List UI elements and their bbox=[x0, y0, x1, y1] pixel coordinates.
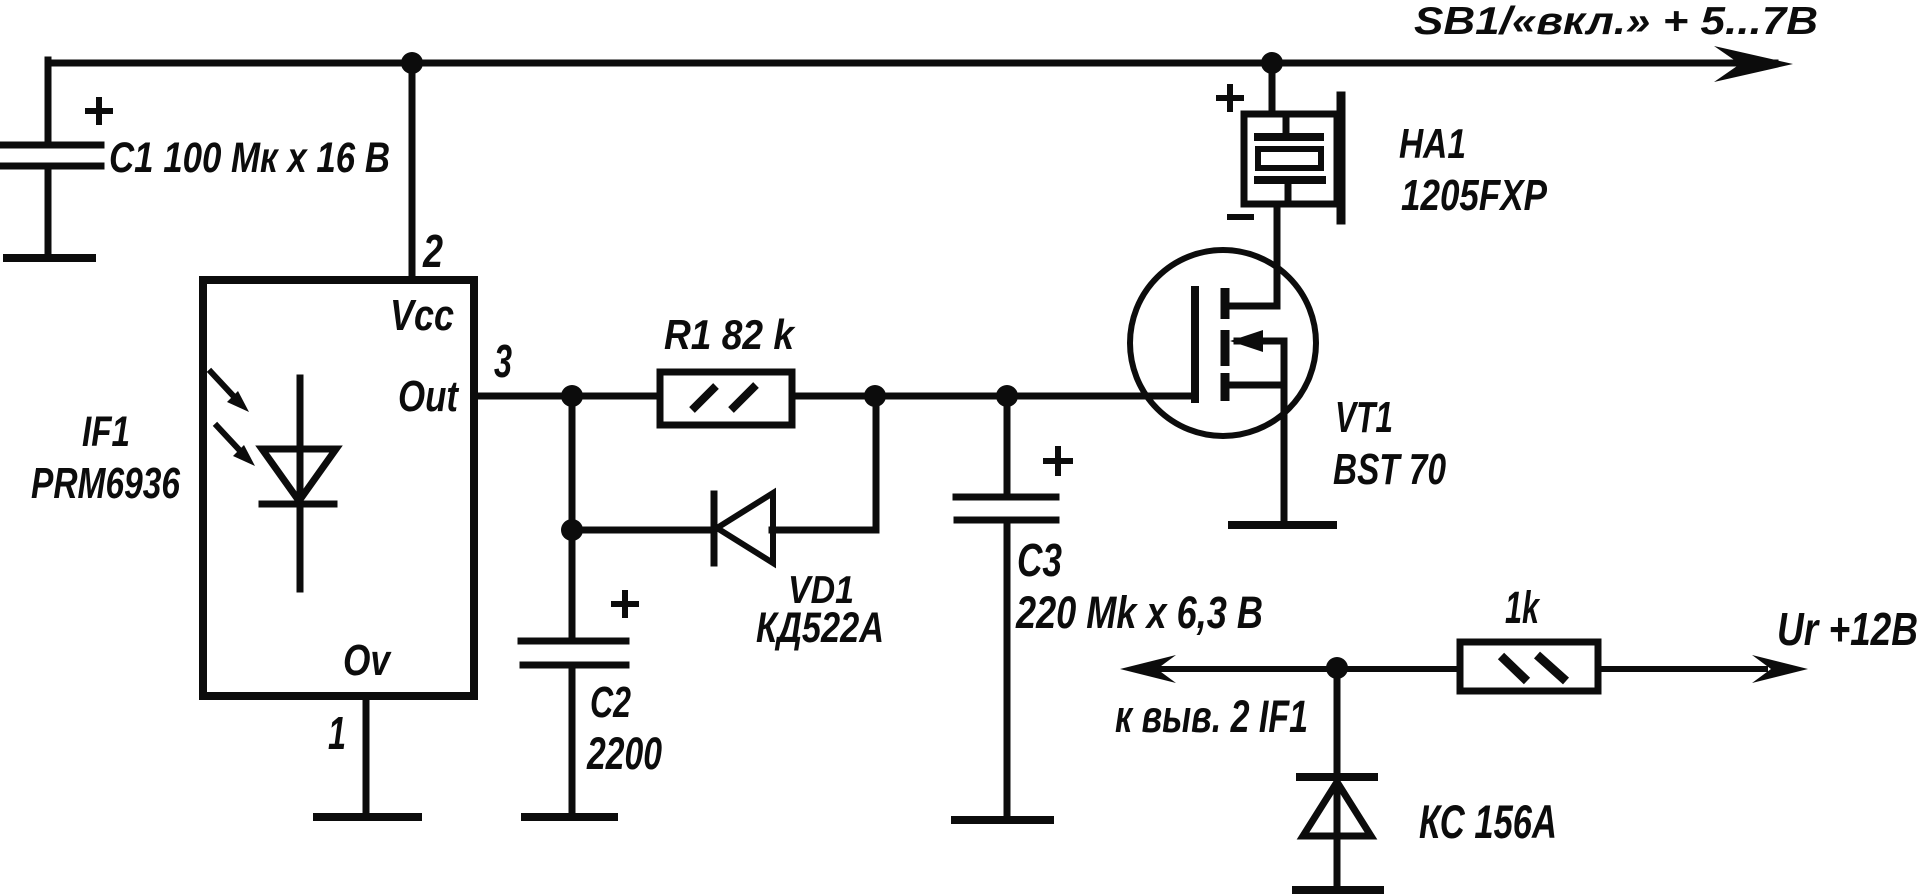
resistor 1k slash marks bbox=[1501, 655, 1566, 681]
pin label Out inside IF1 bbox=[398, 372, 460, 421]
node: junction of top rail and HA1 bbox=[1261, 52, 1283, 74]
svg-text:HA1: HA1 bbox=[1399, 120, 1466, 167]
capacitor C1 bbox=[2, 145, 101, 166]
label: VT1 bbox=[1335, 393, 1393, 442]
wire: Out net from IF1 pin 3 to VT1 gate bbox=[474, 393, 1192, 400]
ground (C1) bbox=[7, 254, 92, 262]
arrow: right end (Ur +12В) bbox=[1752, 655, 1808, 683]
svg-text:C3: C3 bbox=[1017, 534, 1062, 586]
wire: Ur +12В rail bbox=[1140, 666, 1765, 672]
label: 220 Mk x 6,3 В bbox=[1015, 587, 1263, 638]
svg-text:IF1: IF1 bbox=[82, 408, 130, 456]
label: к выв. 2 IF1 bbox=[1115, 691, 1308, 742]
wire: VD1 branch horizontal right part and riser to node2 bbox=[772, 396, 876, 530]
svg-text:1: 1 bbox=[328, 707, 346, 759]
svg-text:SB1/«вкл.» + 5...7В: SB1/«вкл.» + 5...7В bbox=[1414, 0, 1818, 43]
transistor VT1 drain link bbox=[1225, 204, 1277, 306]
svg-text:Vcc: Vcc bbox=[390, 291, 454, 340]
svg-text:2200: 2200 bbox=[586, 728, 662, 779]
transistor VT1 gate bar bbox=[1191, 290, 1199, 399]
wire: node1 down to VD1/C2 branch bbox=[569, 396, 576, 530]
label: net SB1/«вкл.» +5...7В bbox=[1414, 0, 1818, 43]
node: VD1 anode junction bbox=[561, 519, 583, 541]
svg-text:BST 70: BST 70 bbox=[1333, 445, 1446, 494]
ground (zener) bbox=[1296, 886, 1380, 894]
label: BST70 bbox=[1333, 445, 1446, 494]
svg-text:C2: C2 bbox=[590, 678, 631, 727]
arrow: left end (к выв. 2 IF1) bbox=[1120, 655, 1176, 683]
label: PRM6936 bbox=[31, 459, 180, 508]
op-amp U1: photo receiver IC IF1 box bbox=[203, 280, 474, 696]
buzzer HA1 crystal rectangle bbox=[1258, 149, 1321, 168]
svg-text:1k: 1k bbox=[1505, 582, 1540, 633]
ground (C3) bbox=[955, 816, 1050, 824]
photodiode inside IF1 bbox=[262, 378, 336, 589]
ground (IF1 pin 1) bbox=[317, 813, 418, 821]
zener diode КС156А triangle bbox=[1303, 782, 1371, 836]
label: C3 bbox=[1017, 534, 1062, 586]
wire: node3 down to C3 bbox=[1004, 396, 1011, 494]
polarity − of HA1 bbox=[1230, 214, 1251, 220]
buzzer HA1 inner bottom stem bbox=[1285, 184, 1292, 198]
svg-text:к выв. 2 IF1: к выв. 2 IF1 bbox=[1115, 691, 1308, 742]
wire: branch node down to C2 bbox=[569, 530, 576, 640]
pin number 3 of IF1 bbox=[494, 335, 512, 387]
polarity + of C3 bbox=[1046, 449, 1070, 473]
capacitor C3 bbox=[956, 497, 1056, 520]
buzzer HA1 outer box bbox=[1244, 114, 1337, 204]
node: junction of top rail and IF1 pin 2 bbox=[401, 52, 423, 74]
capacitor C2 bbox=[521, 641, 626, 665]
wire: C2 to ground bbox=[569, 665, 576, 813]
transistor VT1 MOSFET body circle bbox=[1130, 250, 1316, 436]
buzzer HA1 membrane bar bbox=[1337, 96, 1346, 220]
wire: VD1 branch horizontal left part bbox=[572, 527, 712, 534]
wire: zener through triangle to ground bbox=[1334, 777, 1341, 886]
transistor VT1 channel segments bbox=[1221, 288, 1230, 401]
label: КД522А bbox=[756, 604, 884, 652]
ground (VT1 source) bbox=[1232, 521, 1333, 529]
wire: HA1 top lead from rail node bbox=[1269, 63, 1276, 114]
diode VD1 cathode bar bbox=[711, 494, 718, 563]
label: IF1 bbox=[82, 408, 130, 456]
node: junction right of R1 to VD1 bbox=[864, 385, 886, 407]
svg-text:КД522А: КД522А bbox=[756, 604, 884, 652]
svg-text:C1 100 Мк x 16 В: C1 100 Мк x 16 В bbox=[109, 134, 390, 182]
zener diode КС156А cathode bar bbox=[1300, 773, 1374, 781]
svg-text:КС 156А: КС 156А bbox=[1419, 795, 1557, 848]
label: C1 value 100 Мк x 16 В bbox=[109, 134, 390, 182]
label: R1 82 k bbox=[664, 311, 796, 358]
polarity + of C1 bbox=[88, 100, 110, 122]
wire: C1 negative lead to ground bbox=[45, 166, 52, 254]
resistor R1 bbox=[660, 372, 792, 425]
svg-text:Ur +12В: Ur +12В bbox=[1777, 603, 1918, 655]
polarity + of HA1 bbox=[1219, 87, 1241, 109]
node: junction of rail and zener VD2 bbox=[1326, 657, 1348, 679]
label: 1205FXP bbox=[1401, 171, 1548, 220]
photodiode light arrow 1 bbox=[211, 372, 238, 401]
wire: IF1 pin 2 from top rail node bbox=[409, 63, 416, 280]
diode VD1 triangle bbox=[717, 493, 773, 563]
label: 2200 bbox=[586, 728, 662, 779]
label: VD1 bbox=[788, 569, 854, 612]
label: КС 156А bbox=[1419, 795, 1557, 848]
wire: C1 positive lead to top rail bbox=[45, 60, 52, 142]
pin label Ov inside IF1 bbox=[343, 636, 392, 685]
node: Out junction to C2 / VD1 branch bbox=[561, 385, 583, 407]
transistor VT1 source link bbox=[1225, 385, 1284, 519]
svg-text:220 Mk x 6,3 В: 220 Mk x 6,3 В bbox=[1015, 587, 1263, 638]
wire: top +supply rail from C1 corner to output arrow bbox=[48, 60, 1775, 67]
buzzer HA1 inner top stem bbox=[1283, 117, 1290, 134]
svg-text:1205FXP: 1205FXP bbox=[1401, 171, 1548, 220]
label: 1k bbox=[1505, 582, 1540, 633]
ground (C2) bbox=[525, 813, 614, 821]
transistor VT1 substrate arrow line bbox=[1237, 341, 1284, 385]
svg-text:R1 82 k: R1 82 k bbox=[664, 311, 796, 358]
label: HA1 bbox=[1399, 120, 1466, 167]
label: C2 bbox=[590, 678, 631, 727]
resistor 1k bbox=[1460, 642, 1598, 691]
transistor VT1 substrate arrowhead bbox=[1230, 330, 1263, 352]
buzzer HA1 top electrode plate bbox=[1258, 133, 1320, 141]
wire: IF1 pin 1 to ground bbox=[363, 696, 370, 813]
svg-text:Ov: Ov bbox=[343, 636, 392, 685]
resistor R1 slash marks bbox=[692, 385, 756, 410]
wire: zener top lead bbox=[1334, 668, 1341, 773]
svg-text:VT1: VT1 bbox=[1335, 393, 1393, 442]
photodiode light arrow 2 bbox=[217, 426, 244, 455]
polarity + of C2 bbox=[614, 593, 636, 615]
svg-text:2: 2 bbox=[422, 225, 443, 277]
svg-text:3: 3 bbox=[494, 335, 512, 387]
pin number 1 of IF1 bbox=[328, 707, 346, 759]
arrow: right end of top rail (output to SB1) bbox=[1714, 46, 1793, 82]
pin label Vcc inside IF1 bbox=[390, 291, 454, 340]
label: Ur +12В bbox=[1777, 603, 1918, 655]
svg-text:Out: Out bbox=[398, 372, 460, 421]
svg-text:PRM6936: PRM6936 bbox=[31, 459, 180, 508]
pin number 2 of IF1 bbox=[422, 225, 443, 277]
node: junction to C3 bbox=[996, 385, 1018, 407]
wire: C3 to ground bbox=[1004, 520, 1011, 816]
buzzer HA1 bottom electrode plate bbox=[1258, 176, 1322, 184]
